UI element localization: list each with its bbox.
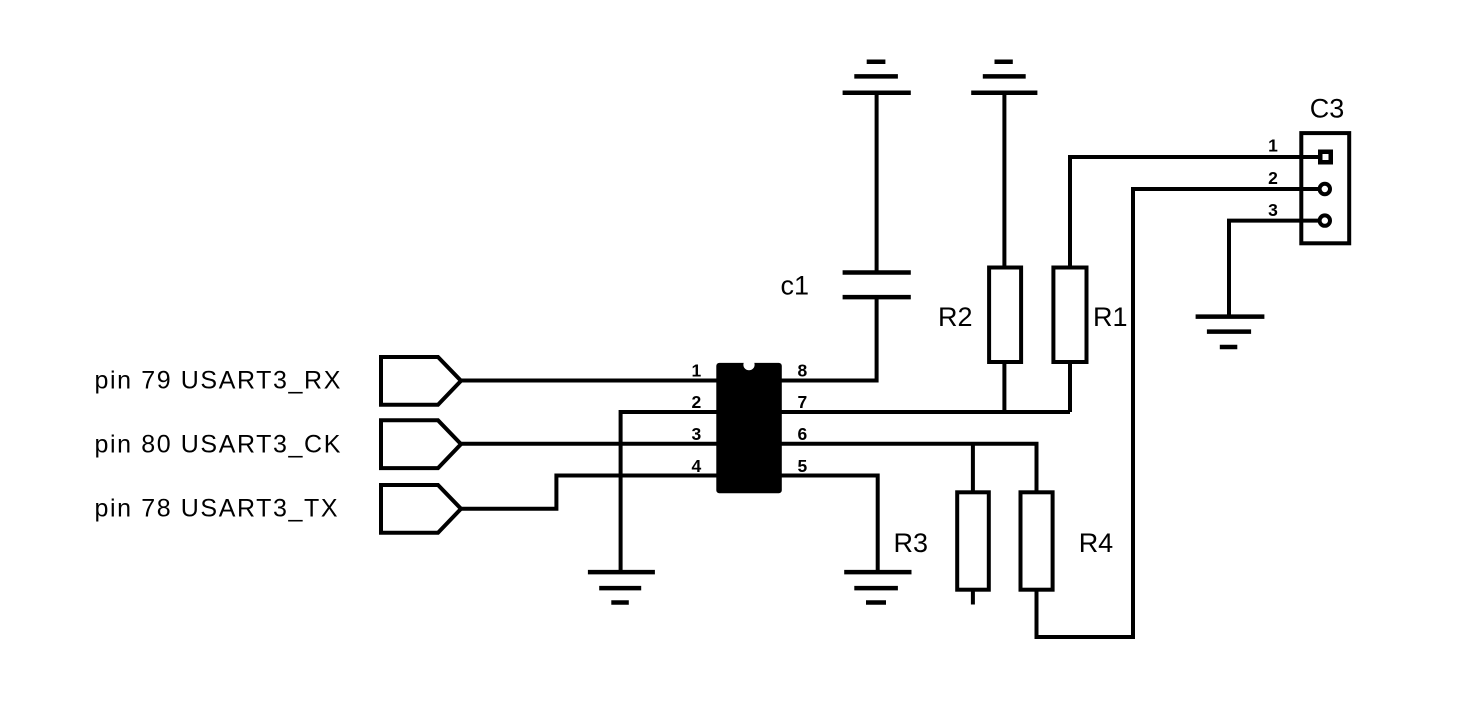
svg-text:6: 6: [798, 424, 808, 444]
svg-text:C3: C3: [1310, 94, 1345, 124]
svg-text:4: 4: [692, 456, 702, 476]
svg-text:R4: R4: [1079, 528, 1114, 558]
svg-text:pin 78 USART3_TX: pin 78 USART3_TX: [95, 495, 340, 523]
svg-text:3: 3: [692, 424, 702, 444]
svg-text:3: 3: [1268, 200, 1278, 220]
svg-text:5: 5: [798, 456, 808, 476]
svg-text:2: 2: [1268, 168, 1278, 188]
svg-text:R1: R1: [1093, 302, 1128, 332]
svg-text:R3: R3: [894, 528, 929, 558]
svg-text:8: 8: [798, 361, 808, 381]
svg-text:pin 80 USART3_CK: pin 80 USART3_CK: [95, 430, 342, 458]
svg-text:2: 2: [692, 392, 702, 412]
svg-text:1: 1: [692, 361, 702, 381]
svg-text:c1: c1: [781, 271, 810, 301]
svg-text:1: 1: [1268, 136, 1278, 156]
svg-text:7: 7: [798, 392, 808, 412]
svg-text:R2: R2: [938, 302, 973, 332]
svg-text:pin 79 USART3_RX: pin 79 USART3_RX: [95, 366, 342, 394]
